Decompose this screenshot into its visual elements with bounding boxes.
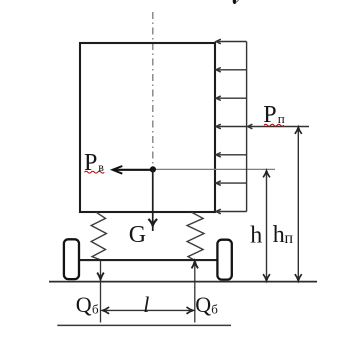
ground line	[49, 281, 317, 283]
svg-text:п: п	[278, 111, 285, 126]
wheel left	[64, 239, 79, 279]
svg-text:б: б	[211, 302, 218, 317]
wheel right	[217, 240, 231, 280]
spellcheck squiggle under Pв	[85, 171, 105, 173]
distributed load arrow 5	[216, 153, 247, 158]
cropped character fragment at top	[233, 0, 239, 4]
svg-text:G: G	[129, 222, 146, 248]
axle beam	[80, 259, 221, 261]
node: centre of gravity dot	[150, 166, 156, 172]
svg-text:l: l	[143, 292, 149, 317]
distributed load arrow 7	[216, 209, 247, 214]
body rectangle	[80, 43, 215, 212]
bottom border line	[57, 324, 231, 326]
svg-text:h: h	[250, 223, 262, 249]
distributed load arrow 4 (on Pп line)	[216, 124, 247, 129]
distributed load arrow 1	[216, 39, 247, 44]
force Pп line with arrowhead at load line	[248, 124, 309, 129]
right reaction extension line with up arrow	[192, 261, 198, 323]
svg-text:Q: Q	[195, 292, 211, 317]
label l (italic)	[143, 292, 149, 317]
svg-text:Q: Q	[76, 292, 92, 317]
centerline (dash-dot axis)	[152, 12, 154, 169]
svg-text:h: h	[273, 222, 285, 248]
distributed wind load boundary line	[246, 42, 248, 212]
left reaction extension line with down arrow	[97, 260, 104, 322]
force Pв arrow	[113, 166, 153, 174]
distributed load arrow 6	[216, 181, 247, 186]
label Pп	[263, 102, 285, 128]
svg-text:б: б	[92, 302, 99, 317]
label Qб right	[195, 292, 218, 317]
svg-text:п: п	[285, 230, 294, 247]
label G	[129, 222, 146, 248]
label hп	[273, 222, 294, 248]
label Qб left	[76, 292, 99, 317]
spring left	[91, 212, 106, 259]
spellcheck squiggle under Pп	[264, 124, 284, 126]
distributed load arrow 3	[216, 96, 247, 101]
label h	[250, 223, 262, 249]
CG level reference line	[153, 168, 275, 170]
dimension h vertical double arrow	[263, 171, 270, 281]
dimension l horizontal double arrow	[103, 307, 193, 314]
dimension hп vertical double arrow	[295, 127, 302, 280]
distributed load arrow 2	[216, 68, 247, 73]
spring right	[187, 212, 204, 259]
force G arrow	[148, 169, 157, 231]
label Pв	[84, 150, 104, 176]
